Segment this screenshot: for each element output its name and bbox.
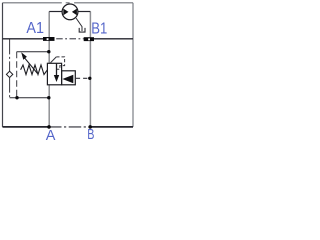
wire: bottom main line dash-dot middle [49,126,90,128]
port A1 marker [43,37,55,41]
wire: A branch vertical below valve [48,85,50,127]
svg-text:A: A [46,128,56,140]
pilot flag diagonal [50,57,56,63]
svg-text:B1: B1 [91,20,107,37]
valve poppet arrow [56,64,58,76]
svg-text:A1: A1 [26,19,44,37]
pilot dashed line from B [76,77,90,79]
motor left triangle [63,9,68,16]
gauge diamond [6,71,12,77]
wire: A1 branch vertical [48,12,50,64]
pilot flag dashed hook [56,57,64,69]
node B on bottom line [88,125,92,129]
node A on bottom line [47,125,51,129]
spring adjuster arrow [25,58,38,74]
node on A1 branch [47,50,50,53]
motor right triangle [72,9,77,16]
wire: motor right port line [78,11,91,13]
wire: top main line dash-dot middle [56,38,83,40]
motor drain line [76,18,82,31]
wire: motor left port line [49,11,62,13]
svg-text:B: B [87,126,94,140]
valve V1 main square [47,63,61,85]
port B1 marker [84,37,94,41]
drain tank symbol [79,28,85,32]
node drain on A branch [47,96,50,99]
pilot dashed line left outer [9,39,11,71]
enclosure box [3,3,134,127]
node pilot on B branch [88,77,91,80]
motor M1 circle [62,4,78,20]
wire: drain collector line [10,97,49,99]
wire: B1-B branch vertical [89,12,91,127]
valve V1 check box [62,71,76,85]
node drain inner [15,96,18,99]
pilot dashed line inner [16,52,18,98]
wire: bottom main line A-B solid parts [3,126,134,128]
check valve triangle [62,75,73,83]
spring [21,65,48,75]
wire: spring frame line [17,51,49,53]
wire: top main line A1-B1 solid parts [3,38,134,40]
